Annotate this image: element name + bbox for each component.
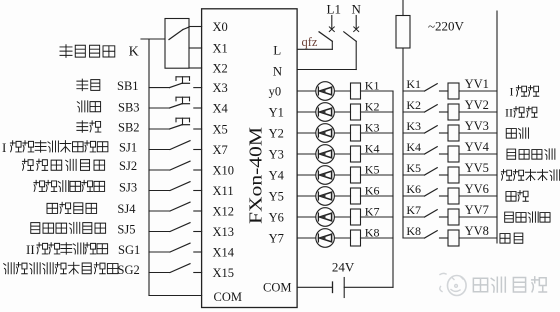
svg-text:K5: K5 (406, 161, 421, 175)
contact section rail (402, 48, 404, 238)
svg-text:X15: X15 (213, 266, 235, 280)
label 复位 (77, 101, 87, 112)
label 辅助送料限位 (31, 223, 40, 234)
wire coil K4 to bus (361, 153, 394, 155)
limit switch SJ2 (149, 169, 170, 171)
wire L pole down (331, 41, 333, 49)
wire lamp to coil K1 (334, 90, 350, 92)
indicator lamp row K8 (316, 229, 335, 248)
svg-text:K1: K1 (406, 77, 421, 91)
svg-text:K3: K3 (406, 119, 421, 133)
label 切槽限位 (47, 203, 58, 213)
wire lamp to coil K8 (334, 237, 350, 239)
relay contact K8 (425, 231, 438, 238)
wire coil YV7 to rail (459, 216, 497, 218)
label 冲头复位检测 (34, 180, 45, 191)
output label 拔销 (500, 234, 510, 244)
limit switch SJ3 (149, 190, 170, 192)
wire PLC to lamp row K4 (297, 153, 316, 155)
wire coil YV6 to rail (459, 195, 497, 197)
wire K to X1 (189, 47, 202, 49)
output label 切槽 (506, 192, 516, 202)
selector switch K box (165, 19, 189, 69)
solenoid coil YV1 (448, 83, 459, 99)
input common bus (148, 39, 150, 296)
label 夹头脱料检测 (37, 243, 48, 254)
wire contact to coil YV5 (440, 174, 449, 176)
relay contact K3 (425, 126, 438, 133)
output label 辅助送料 (507, 149, 516, 159)
wire K to X2 (189, 67, 202, 69)
right return rail (496, 11, 498, 243)
svg-text:K2: K2 (406, 98, 421, 112)
wire rail to contact K8 (403, 237, 425, 239)
label 夹头退回原位检测 (10, 141, 21, 152)
limit switch SJ4 (149, 210, 170, 212)
svg-text:SJ1: SJ1 (119, 141, 137, 155)
relay contact K2 (425, 105, 438, 112)
wire contact to coil YV3 (440, 132, 449, 134)
watermark logo face (448, 276, 467, 296)
svg-text:X10: X10 (213, 163, 235, 177)
svg-text:SB1: SB1 (117, 79, 139, 93)
svg-text:L1: L1 (327, 2, 341, 17)
svg-text:Y5: Y5 (269, 189, 284, 203)
220V supply line (402, 0, 404, 16)
wire PLC to lamp row K1 (297, 90, 316, 92)
wire N pole to PLC N (297, 69, 356, 71)
limit switch SG1 (149, 251, 170, 253)
svg-text:K8: K8 (365, 225, 380, 239)
svg-text:YV7: YV7 (465, 203, 489, 217)
svg-text:YV5: YV5 (465, 161, 489, 175)
wire lamp to coil K2 (334, 111, 350, 113)
svg-text:X5: X5 (213, 122, 228, 136)
indicator lamp row K7 (316, 208, 335, 227)
relay contact K1 (425, 84, 438, 91)
solenoid coil YV4 (448, 146, 459, 162)
relay coil K5 (351, 167, 361, 183)
svg-text:K: K (129, 44, 139, 59)
wire lamp to coil K7 (334, 216, 350, 218)
solenoid coil YV8 (448, 230, 459, 246)
svg-text:YV2: YV2 (465, 98, 489, 112)
svg-text:~220V: ~220V (428, 18, 465, 33)
svg-text:X3: X3 (213, 81, 228, 95)
svg-text:K3: K3 (365, 120, 380, 134)
label 停机 (77, 121, 88, 132)
svg-text:y0: y0 (269, 84, 282, 98)
wire L pole to PLC L (297, 48, 332, 50)
svg-text:Y1: Y1 (269, 105, 284, 119)
indicator lamp row K2 (316, 103, 335, 122)
wire contact to coil YV7 (440, 216, 449, 218)
wire coil YV8 to rail (459, 237, 497, 239)
relay coil K2 (351, 104, 361, 120)
wire coil K7 to bus (361, 216, 394, 218)
solenoid coil YV2 (448, 104, 459, 120)
svg-text:K1: K1 (365, 78, 380, 92)
wire PLC to lamp row K7 (297, 216, 316, 218)
solenoid coil YV5 (448, 167, 459, 183)
wire lamp to coil K5 (334, 174, 350, 176)
svg-text:YV1: YV1 (465, 77, 489, 91)
svg-text:X11: X11 (213, 184, 234, 198)
limit switch SJ5 (149, 231, 170, 233)
pushbutton SB2 (149, 128, 170, 130)
breaker qfz pole L tick (329, 27, 334, 32)
output label 夹头 (516, 86, 526, 97)
indicator lamp row K1 (316, 82, 335, 101)
limit switch SJ1 (149, 149, 170, 151)
relay coil K4 (351, 146, 361, 162)
output label 冲头预压紧 (501, 170, 511, 181)
relay contact K4 (425, 147, 438, 154)
svg-text:K7: K7 (365, 204, 380, 218)
svg-text:L: L (273, 43, 281, 58)
wire coil YV3 to rail (459, 132, 497, 134)
svg-text:SB3: SB3 (118, 100, 140, 114)
wire battery to bus (344, 286, 393, 288)
svg-text:X14: X14 (213, 245, 235, 259)
svg-text:Y2: Y2 (269, 126, 284, 140)
svg-text:YV4: YV4 (465, 140, 490, 154)
solenoid coil YV7 (448, 209, 459, 225)
svg-text:SJ4: SJ4 (117, 202, 136, 216)
wire coil YV2 to rail (459, 111, 497, 113)
svg-text:II: II (505, 106, 513, 120)
wire lamp to coil K3 (334, 132, 350, 134)
svg-text:SG1: SG1 (118, 243, 140, 257)
relay contact K6 (425, 189, 438, 196)
svg-text:X0: X0 (213, 20, 228, 34)
breaker qfz pole N tick (354, 27, 359, 32)
input COM wire (149, 295, 202, 297)
svg-text:X13: X13 (213, 225, 235, 239)
wire coil K1 to bus (361, 90, 394, 92)
breaker qfz pole L blade (319, 32, 332, 42)
svg-text:YV3: YV3 (465, 119, 489, 133)
relay contact K7 (425, 210, 438, 217)
PLC FXon-40M box (202, 9, 298, 308)
svg-text:I: I (2, 140, 6, 155)
wire coil K3 to bus (361, 132, 394, 134)
svg-text:X12: X12 (213, 204, 235, 218)
svg-text:I: I (510, 85, 514, 99)
pushbutton SB1 (149, 87, 170, 89)
svg-text:X1: X1 (213, 41, 228, 55)
label 波段开关 (60, 45, 72, 58)
wire coil YV4 to rail (459, 153, 497, 155)
wire K common (141, 38, 165, 40)
relay coil K8 (351, 230, 361, 246)
relay contact K5 (425, 168, 438, 175)
watermark text 技成培训 (473, 278, 487, 292)
wire contact to coil YV1 (440, 90, 449, 92)
wire PLC COM to battery (297, 286, 331, 288)
pushbutton SB3 (149, 107, 170, 109)
indicator lamp row K6 (316, 187, 335, 206)
solenoid coil YV6 (448, 188, 459, 204)
svg-text:SJ2: SJ2 (119, 159, 137, 173)
svg-text:K4: K4 (406, 140, 421, 154)
label 启动 (77, 79, 88, 90)
wire coil K2 to bus (361, 111, 394, 113)
svg-text:X7: X7 (213, 143, 228, 157)
svg-text:qfz: qfz (302, 35, 318, 49)
wire N pole down (355, 41, 357, 69)
wire lamp to coil K4 (334, 153, 350, 155)
svg-text:X4: X4 (213, 101, 229, 115)
relay coil K6 (351, 188, 361, 204)
svg-text:SJ5: SJ5 (117, 223, 135, 237)
svg-text:SG2: SG2 (118, 263, 140, 277)
wire PLC to lamp row K3 (297, 132, 316, 134)
wire rail to contact K7 (403, 216, 425, 218)
relay coil K1 (351, 83, 361, 99)
battery 24V (332, 282, 334, 293)
label 夹头送料限位 (22, 159, 33, 170)
svg-text:K7: K7 (406, 203, 421, 217)
svg-text:X2: X2 (213, 61, 228, 75)
output label 辅助定位 (505, 212, 514, 222)
wire K to X0 (189, 26, 202, 28)
svg-text:K6: K6 (406, 182, 421, 196)
svg-text:SJ3: SJ3 (119, 181, 137, 195)
output label 送料 (506, 129, 516, 139)
indicator lamp row K3 (316, 124, 335, 143)
wire PLC to lamp row K5 (297, 174, 316, 176)
svg-text:K2: K2 (365, 99, 380, 113)
coil return bus (392, 91, 394, 287)
wire coil K6 to bus (361, 195, 394, 197)
wire coil YV5 to rail (459, 174, 497, 176)
svg-text:SB2: SB2 (118, 121, 140, 135)
svg-text:N: N (273, 64, 283, 79)
wire coil YV1 to rail (459, 90, 497, 92)
wire rail to contact K5 (403, 174, 425, 176)
wire PLC to lamp row K8 (297, 237, 316, 239)
selector switch K blade (169, 30, 183, 40)
solenoid coil YV3 (448, 125, 459, 141)
wire rail to contact K6 (403, 195, 425, 197)
wire PLC to lamp row K6 (297, 195, 316, 197)
wire rail to contact K4 (403, 153, 425, 155)
svg-text:Y4: Y4 (269, 168, 285, 182)
svg-text:YV6: YV6 (465, 182, 489, 196)
svg-text:K5: K5 (365, 162, 380, 176)
relay coil K3 (351, 125, 361, 141)
output label 夹头 (514, 107, 524, 118)
breaker qfz pole L stub (331, 16, 333, 30)
limit switch SG2 (149, 272, 170, 274)
wire contact to coil YV6 (440, 195, 449, 197)
wire PLC to lamp row K2 (297, 111, 316, 113)
svg-text:Y6: Y6 (269, 210, 284, 224)
wire coil K5 to bus (361, 174, 394, 176)
wire rail to contact K3 (403, 132, 425, 134)
svg-text:FXon-40M: FXon-40M (246, 127, 266, 224)
label 料头进入冲断区检测 (4, 263, 14, 274)
relay coil K7 (351, 209, 361, 225)
wire contact to coil YV8 (440, 237, 449, 239)
svg-text:24V: 24V (332, 260, 355, 275)
svg-text:COM: COM (263, 281, 291, 295)
wire rail to contact K2 (403, 111, 425, 113)
indicator lamp row K5 (316, 166, 335, 185)
breaker qfz pole N stub (355, 16, 357, 30)
breaker qfz pole N blade (344, 32, 356, 42)
svg-text:N: N (352, 2, 362, 17)
wire contact to coil YV4 (440, 153, 449, 155)
wire rail to contact K1 (403, 90, 425, 92)
svg-text:K8: K8 (406, 224, 421, 238)
svg-text:YV8: YV8 (465, 224, 489, 238)
wire coil K8 to bus (361, 237, 394, 239)
indicator lamp row K4 (316, 145, 335, 164)
svg-text:COM: COM (214, 290, 242, 304)
wire lamp to coil K6 (334, 195, 350, 197)
svg-text:Y3: Y3 (269, 147, 284, 161)
wire contact to coil YV2 (440, 111, 449, 113)
fuse FU (396, 16, 410, 49)
svg-text:Y7: Y7 (269, 231, 284, 245)
svg-text:K6: K6 (365, 183, 380, 197)
svg-text:K4: K4 (365, 141, 380, 155)
svg-text:II: II (26, 242, 35, 257)
